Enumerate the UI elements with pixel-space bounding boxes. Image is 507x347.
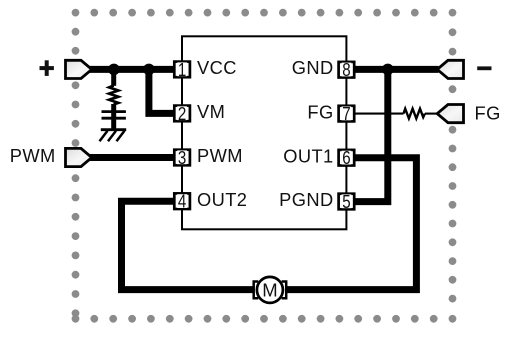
- pin 5: [339, 192, 355, 212]
- wire resistor to FG terminal: [425, 113, 438, 115]
- wire FG pin 7 lead: [353, 113, 404, 115]
- pin 2: [174, 104, 190, 124]
- wire GND pin 8 to minus terminal: [353, 66, 439, 73]
- svg-text:PWM: PWM: [10, 145, 56, 166]
- svg-text:1: 1: [178, 60, 186, 80]
- capacitor: [102, 112, 126, 119]
- pin 1: [174, 60, 190, 80]
- node junction on + rail (to VM): [143, 64, 155, 76]
- ground: [100, 130, 127, 142]
- svg-text:4: 4: [178, 192, 186, 212]
- connector - (negative supply): [437, 60, 463, 78]
- svg-text:PGND: PGND: [279, 189, 333, 210]
- svg-text:PWM: PWM: [197, 145, 243, 166]
- pin 8: [339, 60, 355, 80]
- svg-text:8: 8: [342, 60, 350, 80]
- motor M: [254, 277, 287, 303]
- node junction on + rail (to resistor): [108, 64, 120, 76]
- wire OUT1 loop to motor: [286, 158, 416, 290]
- wire OUT2 loop to motor: [122, 201, 255, 289]
- IC U1 body: [182, 36, 346, 229]
- pin 7: [339, 104, 355, 124]
- connector PWM input: [66, 148, 92, 166]
- svg-text:FG: FG: [307, 101, 333, 122]
- svg-text:5: 5: [342, 192, 350, 212]
- connector + (positive supply): [66, 60, 92, 78]
- svg-text:VCC: VCC: [197, 57, 237, 78]
- dotted frame (decorative): [72, 9, 457, 323]
- wire GND branch to PGND pin 5: [353, 66, 388, 202]
- svg-text:M: M: [262, 280, 277, 301]
- connector FG output: [437, 105, 463, 123]
- svg-text:3: 3: [178, 148, 186, 168]
- resistor (VCC filter): [109, 69, 118, 129]
- wire PWM input to pin 3: [89, 154, 175, 161]
- svg-text:GND: GND: [292, 57, 334, 78]
- resistor FG pull-up: [404, 109, 425, 119]
- pin 6: [339, 148, 355, 168]
- wire + input to pin 1: [89, 66, 175, 73]
- wire VM branch to pin 2: [149, 66, 175, 113]
- svg-text:6: 6: [342, 148, 350, 168]
- svg-text:7: 7: [342, 104, 350, 124]
- svg-text:OUT2: OUT2: [197, 189, 247, 210]
- label -: [477, 66, 491, 70]
- svg-text:2: 2: [178, 104, 186, 124]
- svg-text:FG: FG: [475, 103, 501, 124]
- pin 3: [174, 148, 190, 168]
- svg-text:VM: VM: [197, 101, 225, 122]
- pin 4: [174, 192, 190, 212]
- svg-text:OUT1: OUT1: [283, 145, 333, 166]
- label +: [40, 60, 54, 76]
- node junction on GND rail: [382, 64, 394, 76]
